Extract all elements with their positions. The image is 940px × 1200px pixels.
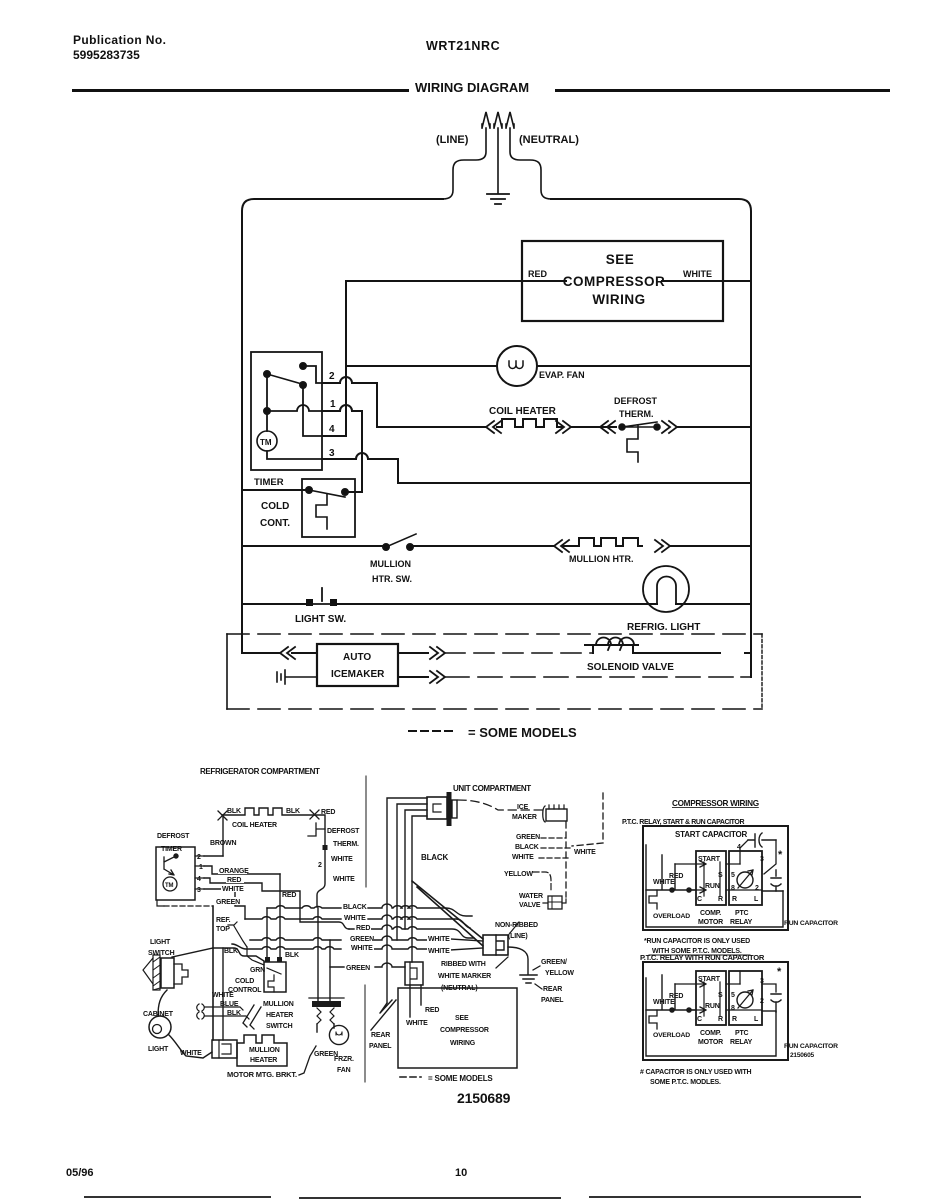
svg-text:WHITE: WHITE (333, 876, 355, 883)
svg-text:MAKER: MAKER (512, 814, 537, 821)
box2 overload element (649, 1010, 657, 1029)
box2 white loop wire (646, 978, 776, 1056)
mullion heater box (237, 1035, 287, 1066)
box1 wire terminal3 (764, 840, 776, 874)
bundle row GREEN (250, 936, 444, 940)
svg-text:ORANGE: ORANGE (219, 868, 249, 875)
svg-text:RUN CAPACITOR: RUN CAPACITOR (784, 920, 838, 927)
svg-text:WHITE: WHITE (653, 879, 675, 886)
svg-text:GREEN/: GREEN/ (541, 959, 567, 966)
dashed harness right (572, 793, 603, 846)
svg-text:MOTOR MTG. BRKT.: MOTOR MTG. BRKT. (227, 1070, 297, 1079)
svg-text:CONT.: CONT. (260, 518, 290, 529)
ptc box2 outline (643, 962, 788, 1060)
svg-text:4: 4 (197, 876, 201, 883)
svg-text:1: 1 (330, 399, 336, 410)
svg-text:S: S (718, 992, 723, 999)
wire w3 connector (405, 810, 427, 929)
svg-text:TM: TM (260, 438, 272, 447)
svg-text:L: L (754, 896, 759, 903)
wire w4 connector (412, 816, 427, 962)
legend dashes SOME MODELS (409, 730, 457, 732)
svg-text:= SOME MODELS: = SOME MODELS (468, 725, 577, 740)
unit compartment connector body (433, 804, 441, 812)
svg-text:10: 10 (455, 1167, 467, 1179)
tick to ribbed label (496, 957, 508, 968)
rear panel V twist (380, 1000, 392, 1013)
wire red to compressor (420, 985, 422, 1005)
label WHITE bundle (343, 912, 367, 921)
freezer fan wires down (317, 1024, 334, 1032)
dashed wire ice maker down (565, 822, 567, 897)
timer contact C (300, 382, 306, 388)
defrost thermostat element (627, 425, 638, 462)
wire GRN to cold control (247, 947, 264, 965)
svg-text:UNIT COMPARTMENT: UNIT COMPARTMENT (453, 784, 531, 793)
compartment divider upper (365, 776, 367, 887)
box2 ptc thermistor (737, 992, 753, 1008)
svg-text:COMPRESSOR: COMPRESSOR (440, 1027, 489, 1034)
label GREEN timer (215, 897, 244, 905)
svg-text:BROWN: BROWN (210, 840, 236, 847)
wire GREEN dashed to vertical (164, 905, 213, 907)
wire timer terminal 2 (322, 377, 377, 427)
svg-text:WHITE: WHITE (222, 886, 244, 893)
svg-text:RELAY: RELAY (730, 1039, 753, 1046)
svg-text:START: START (698, 976, 721, 983)
wire to defrost therm (571, 426, 616, 428)
cold control lower blade (267, 968, 281, 992)
svg-text:BLACK: BLACK (421, 853, 448, 862)
svg-text:2: 2 (760, 998, 764, 1005)
bundle row WHITE (245, 915, 470, 928)
COMPRESSOR TEXT (622, 799, 838, 1086)
svg-text:RUN: RUN (705, 1003, 720, 1010)
freezer fan harness squiggles (317, 1008, 334, 1024)
box1 white loop wire (646, 845, 783, 927)
box1 comp motor box (696, 851, 726, 905)
label GREEN bundle (349, 933, 374, 942)
svg-text:TOP: TOP (216, 926, 230, 933)
svg-text:WHITE: WHITE (344, 915, 366, 922)
svg-text:4: 4 (737, 844, 741, 851)
svg-text:RUN CAPACITOR: RUN CAPACITOR (784, 1043, 838, 1050)
svg-text:= SOME MODELS: = SOME MODELS (428, 1074, 493, 1083)
label BLACK bundle (342, 901, 367, 910)
connector arrows coil heater right (556, 421, 571, 433)
UPPER DIAGRAM (227, 112, 762, 731)
timer wire C down to terminal 4 (303, 385, 322, 436)
connector pair symbols (197, 1004, 205, 1019)
wire mullion heater row (242, 545, 553, 547)
green row to connector (330, 963, 405, 967)
wire terminal 1 drop (322, 405, 362, 492)
cold control right contact (342, 489, 348, 495)
icemaker dashed box left (226, 634, 228, 709)
timer wire B to D to TM (266, 374, 268, 431)
wire green freezer fan (299, 1046, 316, 1075)
svg-text:COMP.: COMP. (700, 910, 721, 917)
heater COIL HEATER element (497, 419, 562, 427)
plug prong GROUND (494, 112, 502, 193)
svg-text:COMPRESSOR: COMPRESSOR (563, 274, 666, 289)
svg-text:*RUN CAPACITOR IS ONLY USED: *RUN CAPACITOR IS ONLY USED (644, 938, 750, 945)
timer contact D junction (264, 408, 270, 414)
svg-text:THERM.: THERM. (619, 409, 654, 419)
box2 L wire (762, 1010, 776, 1012)
svg-text:RED: RED (669, 873, 683, 880)
label START CAPACITOR (673, 828, 748, 838)
wire mullion to right edge (670, 545, 751, 547)
UPPER TEXT (254, 134, 712, 740)
label WHITE timer (221, 884, 247, 892)
svg-text:3: 3 (760, 856, 764, 863)
svg-text:YELLOW: YELLOW (504, 871, 533, 878)
svg-text:WRT21NRC: WRT21NRC (426, 39, 500, 53)
svg-text:RUN: RUN (705, 883, 720, 890)
box2 start winding arrow (675, 981, 740, 987)
svg-text:OVERLOAD: OVERLOAD (653, 913, 690, 920)
svg-text:OVERLOAD: OVERLOAD (653, 1032, 690, 1039)
svg-text:RED: RED (321, 809, 335, 816)
freezer fan connector bar (312, 1001, 341, 1007)
svg-text:SEE: SEE (455, 1015, 469, 1022)
label WHITE plug a (427, 933, 451, 942)
connector arrows mullion right (655, 540, 670, 552)
tick green-yellow (533, 966, 540, 970)
timer wire A jog (303, 366, 322, 383)
svg-text:SOME P.T.C. MODLES.: SOME P.T.C. MODLES. (650, 1079, 721, 1086)
wire BROWN vertical (222, 815, 224, 856)
switch MULLION HTR SW (383, 544, 389, 550)
wire white to plug b (450, 948, 483, 950)
wire ORANGE terminal1 (204, 866, 280, 874)
wire RED drop from coil heater (314, 815, 325, 907)
timer contact A (300, 363, 306, 369)
svg-text:DEFROST: DEFROST (327, 828, 360, 835)
plug prong LINE (443, 112, 490, 199)
HEADER (72, 33, 890, 95)
timer motor TM (257, 431, 277, 451)
tick REF TOP (228, 922, 247, 947)
svg-text:RED: RED (356, 925, 370, 932)
wire BLK light switch up (172, 948, 213, 957)
cold control left contact (306, 487, 312, 493)
box1 main wire (646, 855, 696, 890)
svg-text:5995283735: 5995283735 (73, 48, 140, 62)
svg-text:2: 2 (318, 862, 322, 869)
icemaker fill plug symbol (277, 670, 317, 684)
svg-text:WHITE MARKER: WHITE MARKER (438, 973, 491, 980)
svg-text:BLACK: BLACK (515, 844, 539, 851)
box1 L wire (762, 890, 783, 892)
timer blade B-C (267, 374, 302, 384)
freezer fan motor (329, 1025, 348, 1044)
svg-text:GREEN: GREEN (346, 965, 370, 972)
svg-text:RED: RED (425, 1007, 439, 1014)
svg-text:WIRING DIAGRAM: WIRING DIAGRAM (415, 80, 529, 95)
splice X right of coil heater (310, 810, 319, 819)
FOOTER (66, 1167, 860, 1198)
dashed wire row1 to solenoid (445, 652, 593, 654)
svg-text:WHITE: WHITE (512, 854, 534, 861)
evap fan motor (497, 346, 537, 386)
svg-text:MULLION: MULLION (249, 1047, 280, 1054)
wire RED to compressor box (346, 280, 751, 282)
connector arrows icemaker left (280, 647, 295, 659)
wire plug to ground (508, 947, 528, 974)
box1 ptc relay box (729, 851, 762, 905)
svg-text:MULLION HTR.: MULLION HTR. (569, 554, 634, 564)
svg-text:COMP.: COMP. (700, 1030, 721, 1037)
svg-text:WIRING: WIRING (450, 1040, 476, 1047)
wire icemaker out row2 (398, 676, 428, 678)
timer terminal stubs (195, 856, 204, 889)
box2 main wire (646, 975, 696, 1010)
svg-text:PANEL: PANEL (541, 997, 564, 1004)
svg-text:ICEMAKER: ICEMAKER (331, 669, 385, 680)
svg-text:COIL HEATER: COIL HEATER (232, 822, 277, 829)
label ORANGE (218, 866, 247, 874)
connector arrows coil heater left (486, 421, 501, 433)
svg-text:CABINET: CABINET (143, 1011, 174, 1018)
vertical bus from RED wire (323, 281, 346, 436)
light switch body (153, 955, 160, 990)
connector arrows defrost left (600, 421, 615, 433)
ptc box1 outline (643, 826, 788, 930)
dashed stub black (541, 847, 572, 849)
svg-text:4: 4 (329, 424, 335, 435)
cold control box (302, 479, 355, 537)
footnote underline (649, 954, 750, 956)
cabinet outline left (242, 199, 443, 653)
wire white to plug a (450, 939, 483, 941)
light switch mount diagonal (143, 958, 153, 984)
svg-text:REAR: REAR (543, 986, 562, 993)
svg-text:MOTOR: MOTOR (698, 919, 723, 926)
svg-text:BLK: BLK (227, 1010, 241, 1017)
box1 wire terminal4 (740, 840, 748, 864)
svg-text:P.T.C. RELAY, START & RUN CAPA: P.T.C. RELAY, START & RUN CAPACITOR (622, 819, 744, 826)
svg-text:GREEN: GREEN (516, 834, 540, 841)
freezer fan wire b (329, 940, 331, 1001)
svg-text:REF.: REF. (216, 917, 231, 924)
connector arrows defrost right (662, 421, 677, 433)
svg-text:S: S (718, 872, 723, 879)
splice X left of coil heater (218, 811, 227, 820)
box2 run winding arrow (689, 1007, 762, 1013)
box1 ptc thermistor (737, 872, 753, 888)
wire blk to switch (205, 1016, 249, 1019)
connector arrows mullion left (554, 540, 569, 552)
svg-text:WHITE: WHITE (351, 945, 373, 952)
svg-text:GREEN: GREEN (350, 936, 374, 943)
svg-text:SWITCH: SWITCH (148, 950, 175, 957)
svg-text:EVAP. FAN: EVAP. FAN (539, 370, 585, 380)
wire black diagonal pair to plug (412, 881, 483, 946)
svg-text:THERM.: THERM. (333, 841, 359, 848)
defrost thermostat switch (620, 422, 659, 427)
box1 start winding arrow (675, 861, 740, 867)
svg-text:HEATER: HEATER (250, 1057, 277, 1064)
splice square on white wire (323, 845, 328, 850)
svg-text:HTR. SW.: HTR. SW. (372, 574, 412, 584)
svg-text:8: 8 (731, 885, 735, 892)
defrost timer motor TM (163, 877, 177, 891)
svg-text:GRN: GRN (250, 967, 265, 974)
svg-text:DEFROST: DEFROST (614, 396, 658, 406)
wire icemaker feed (242, 652, 317, 654)
svg-text:WHITE: WHITE (574, 849, 596, 856)
svg-text:WHITE: WHITE (212, 992, 234, 999)
light switch plunger (174, 964, 188, 984)
box SEE COMPRESSOR WIRING lower (398, 988, 517, 1068)
heater MULLION HTR element (562, 538, 642, 546)
ground symbol (487, 194, 509, 204)
wire light switch row (242, 603, 751, 605)
svg-text:3: 3 (329, 448, 335, 459)
svg-text:L: L (754, 1016, 759, 1023)
wire solenoid to right edge (633, 652, 751, 654)
wire terminal2 to brown (204, 855, 223, 857)
bundle row RED (349, 925, 474, 938)
svg-text:COMPRESSOR WIRING: COMPRESSOR WIRING (672, 799, 759, 808)
svg-text:COLD: COLD (235, 978, 254, 985)
defrost therm element lower (308, 823, 325, 836)
mullion heater switch blades (243, 1005, 261, 1029)
timer wire terminal 1 (267, 405, 322, 411)
bundle row BLACK (267, 904, 472, 916)
cold control element (316, 494, 327, 529)
wire evap fan row (346, 365, 751, 367)
icemaker dashed box bottom (227, 708, 762, 710)
svg-text:*: * (777, 966, 782, 978)
svg-text:1: 1 (199, 864, 203, 871)
vertical wire V4 orange to cold control (279, 874, 281, 958)
svg-text:R: R (718, 1016, 723, 1023)
wire w2 connector (397, 804, 427, 940)
wire light switch to cabinet light (158, 990, 167, 1016)
header rule (72, 89, 890, 92)
wire WHITE cabinet light (169, 1035, 212, 1058)
svg-text:WHITE: WHITE (180, 1050, 202, 1057)
svg-text:REFRIGERATOR COMPARTMENT: REFRIGERATOR COMPARTMENT (200, 767, 320, 776)
icemaker dashed box top (227, 633, 762, 635)
wire WHITE terminal3 (204, 889, 245, 919)
LOWER DIAGRAM (156, 776, 603, 1082)
label RED timer (226, 875, 244, 883)
icemaker dashed box right (761, 634, 763, 709)
dashed stub green (541, 837, 566, 839)
box AUTO ICEMAKER (317, 644, 398, 686)
tick rear panel right (535, 984, 542, 989)
svg-text:8: 8 (731, 1005, 735, 1012)
svg-text:BLK: BLK (227, 808, 241, 815)
vertical wire V3 black to cold control (266, 908, 268, 958)
tick to non-ribbed label (510, 922, 519, 933)
svg-text:2150689: 2150689 (457, 1090, 511, 1106)
svg-text:PTC: PTC (735, 1030, 749, 1037)
label WHITE bundle2 (350, 942, 374, 951)
svg-text:FAN: FAN (337, 1067, 351, 1074)
svg-text:(LINE): (LINE) (508, 933, 528, 940)
svg-text:TIMER: TIMER (254, 477, 284, 488)
lamp REFRIG LIGHT (643, 566, 689, 612)
svg-text:# CAPACITOR IS ONLY USED WITH: # CAPACITOR IS ONLY USED WITH (640, 1069, 752, 1076)
svg-text:FRZR.: FRZR. (334, 1056, 354, 1063)
svg-text:RIBBED WITH: RIBBED WITH (441, 961, 486, 968)
svg-text:LIGHT: LIGHT (148, 1046, 169, 1053)
box2 junction dots (670, 1008, 674, 1012)
svg-text:5: 5 (731, 872, 735, 879)
cabinet outline right (551, 199, 751, 677)
svg-text:P.T.C. RELAY WITH RUN CAPACITO: P.T.C. RELAY WITH RUN CAPACITOR (640, 953, 765, 962)
svg-text:LIGHT: LIGHT (150, 939, 171, 946)
svg-text:YELLOW: YELLOW (545, 970, 574, 977)
svg-text:RED: RED (227, 877, 241, 884)
switch LIGHT SW (306, 599, 313, 606)
bundle row WHITE2 (232, 944, 444, 949)
box2 ptc relay box (729, 971, 762, 1025)
svg-text:START: START (698, 856, 721, 863)
defrost timer box (156, 847, 195, 900)
box1 run capacitor (771, 870, 781, 891)
timer contact B (264, 371, 270, 377)
svg-text:TIMER: TIMER (161, 846, 182, 853)
cold control blade (309, 490, 345, 497)
box SEE COMPRESSOR WIRING (522, 241, 723, 321)
LOWER TEXT (143, 767, 596, 1106)
wire line to cold control (242, 489, 309, 491)
rear panel connector box (405, 962, 423, 985)
cold control lower box (264, 962, 286, 992)
solenoid valve coil (585, 645, 638, 653)
box2 wire terminal3 (740, 971, 776, 992)
svg-text:RED: RED (528, 269, 548, 279)
box1 run winding arrow (689, 887, 762, 893)
svg-text:DEFROST: DEFROST (157, 833, 190, 840)
svg-text:SEE: SEE (606, 252, 635, 267)
svg-text:RED: RED (282, 892, 296, 899)
wire terminal 3 row (322, 453, 751, 483)
wire w1 connector to rear panel (387, 798, 427, 1003)
power cord plug NON-RIBBED (483, 935, 508, 955)
wire yellow (533, 872, 551, 890)
svg-text:START CAPACITOR: START CAPACITOR (675, 830, 748, 839)
svg-text:SOLENOID VALVE: SOLENOID VALVE (587, 662, 674, 673)
svg-text:LIGHT SW.: LIGHT SW. (295, 614, 346, 625)
svg-text:Publication No.: Publication No. (73, 33, 166, 47)
rear panel diagonal (371, 1000, 396, 1030)
svg-text:WHITE: WHITE (406, 1020, 428, 1027)
svg-text:WHITE: WHITE (331, 856, 353, 863)
heater coil element lower (222, 808, 314, 815)
ground rear panel (520, 975, 537, 983)
svg-text:2: 2 (755, 885, 759, 892)
defrost timer cam contacts (174, 854, 178, 858)
svg-text:BLUE: BLUE (220, 1001, 239, 1008)
label WHITE plug b (427, 945, 451, 954)
box1 start capacitor (748, 833, 776, 847)
box2 comp motor box (696, 971, 726, 1025)
connector arrows out row2 (430, 671, 445, 683)
svg-text:R: R (718, 896, 723, 903)
ice maker plug (543, 806, 545, 822)
freezer fan wire a (317, 908, 319, 1001)
vertical wire V2 (222, 948, 224, 1040)
svg-text:REAR: REAR (371, 1032, 390, 1039)
wire coil heater row (377, 426, 485, 428)
